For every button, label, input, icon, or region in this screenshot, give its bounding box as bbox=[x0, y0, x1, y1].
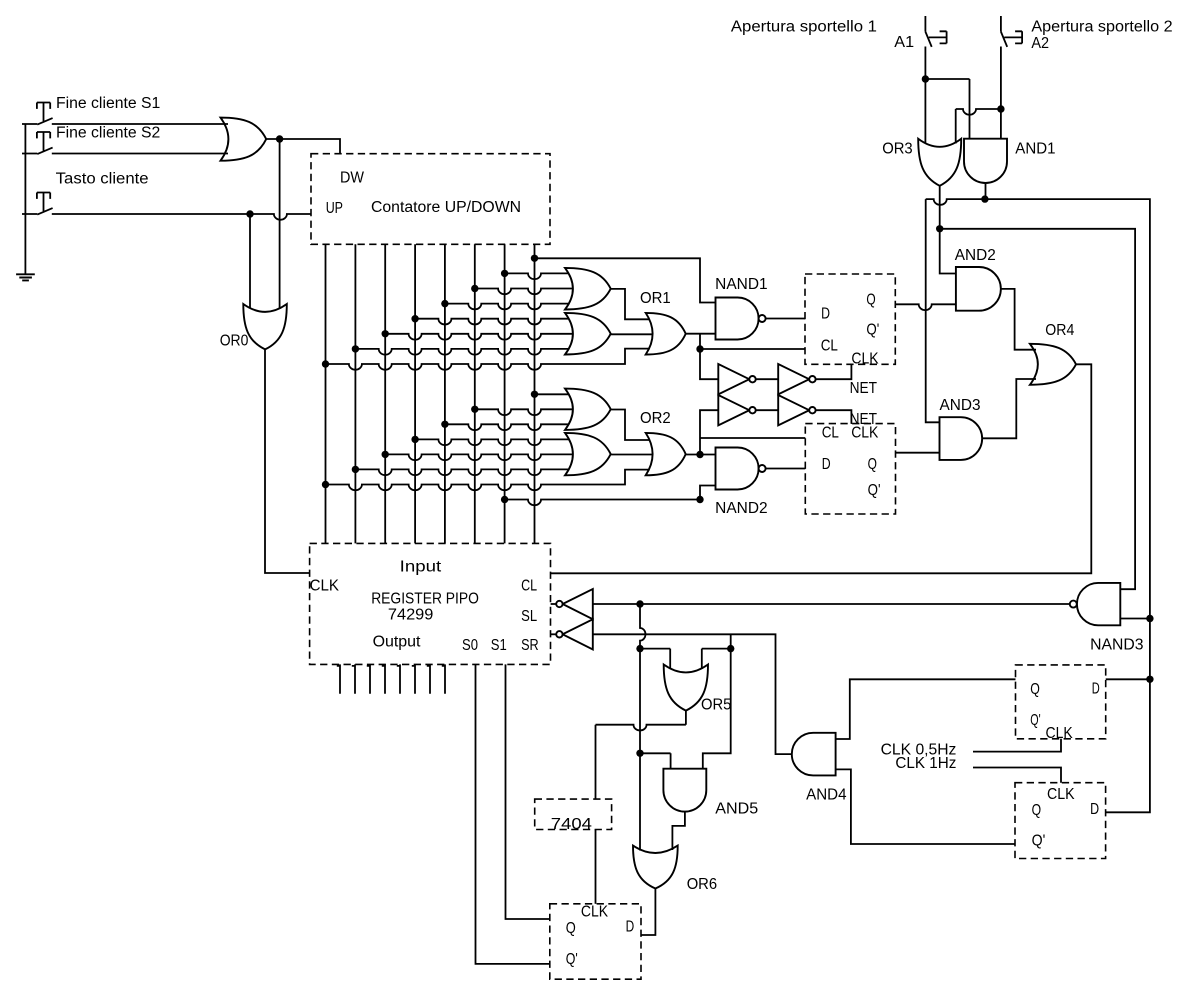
junction bus row 2 (upper group) bbox=[471, 285, 478, 292]
svg-text:UP: UP bbox=[326, 200, 343, 217]
junction bus row 4 (upper group) bbox=[411, 315, 418, 322]
stub SL bubble to register bbox=[551, 603, 557, 605]
svg-text:74299: 74299 bbox=[388, 606, 434, 623]
svg-text:S0: S0 bbox=[462, 637, 478, 654]
svg-text:AND1: AND1 bbox=[1015, 141, 1055, 158]
wire NET to DFF2 CLK bbox=[816, 410, 852, 423]
wire DFF1 Q to AND2 (hops over AND3 feed) bbox=[895, 304, 956, 310]
svg-text:REGISTER PIPO: REGISTER PIPO bbox=[371, 590, 479, 607]
inverter U1b (NET chain bottom, first) bbox=[718, 395, 749, 425]
svg-text:AND3: AND3 bbox=[940, 397, 981, 414]
svg-text:Output: Output bbox=[373, 634, 422, 651]
junction bus row (lower group) at x=474.8 bbox=[471, 406, 478, 413]
wire CLK 1Hz to DFF4 CLK bbox=[973, 768, 1061, 783]
inverter U2a (NET chain top, second) bbox=[778, 364, 809, 394]
svg-text:CLK: CLK bbox=[851, 425, 879, 442]
wire between NET inverters (top) bbox=[756, 378, 779, 380]
svg-text:S1: S1 bbox=[491, 637, 507, 654]
wire counter bit7 to OR2a bbox=[535, 393, 569, 395]
wire A1 branch to AND1 left input bbox=[925, 79, 969, 139]
svg-text:D: D bbox=[626, 918, 635, 935]
junction bus row 3 (upper group) bbox=[441, 300, 448, 307]
svg-text:D: D bbox=[821, 306, 830, 323]
wire counter bit0 to OR1 low input bbox=[326, 349, 650, 370]
wire junction to OR0 left input bbox=[249, 214, 251, 309]
junction bus row 5 (upper group) bbox=[382, 330, 389, 337]
wire OR3 tap to NAND3 top input bbox=[940, 229, 1135, 589]
or-gate OR2b bbox=[565, 433, 611, 475]
wire OR2a output to OR2 bbox=[611, 410, 650, 441]
and-gate AND3 bbox=[940, 417, 983, 460]
d-flip-flop DFF1 box bbox=[805, 274, 895, 364]
svg-text:OR1: OR1 bbox=[640, 290, 671, 307]
wire NET to DFF1 CLK bbox=[816, 364, 852, 379]
svg-text:CLK: CLK bbox=[851, 351, 879, 368]
wire AND3 output to OR4 bbox=[982, 379, 1036, 438]
and-gate AND2 bbox=[956, 267, 1001, 311]
svg-text:CLK: CLK bbox=[581, 903, 609, 920]
svg-text:OR3: OR3 bbox=[882, 141, 913, 158]
or-gate OR2 bbox=[646, 433, 686, 475]
wire OR2b output to OR2 bbox=[611, 454, 653, 456]
wire counter bit5 to OR2a (center) bbox=[475, 409, 573, 415]
wire counter bit4 to OR2a bbox=[445, 424, 569, 430]
wire NAND2 output to DFF2 D bbox=[766, 468, 806, 470]
svg-text:Q: Q bbox=[1030, 681, 1040, 698]
junction OR5 left feed bbox=[636, 645, 643, 652]
or-gate OR(S1,S2) bbox=[221, 118, 267, 161]
counter box (Contatore UP/DOWN) bbox=[311, 154, 550, 245]
wire OR3 output down to AND2 top input (hops rail) bbox=[940, 186, 956, 274]
svg-text:Q': Q' bbox=[1030, 712, 1040, 729]
junction Tasto/OR0 bbox=[246, 210, 253, 217]
svg-text:Q': Q' bbox=[868, 482, 881, 499]
wire register S0 to DFF5 Q' row bbox=[476, 664, 550, 964]
svg-text:OR6: OR6 bbox=[687, 876, 717, 893]
svg-text:Q: Q bbox=[868, 456, 877, 473]
wire counter bit4 to OR1a bbox=[445, 304, 569, 310]
counter output bus wires (8 verticals to register) bbox=[326, 244, 535, 543]
wire Tasto cliente to counter UP input bbox=[52, 214, 311, 220]
or-gate OR3 bbox=[918, 139, 961, 186]
svg-text:Fine cliente S1: Fine cliente S1 bbox=[56, 95, 160, 112]
svg-text:OR5: OR5 bbox=[701, 697, 731, 714]
junction rail to NAND3 low input bbox=[1146, 615, 1153, 622]
inverter box 7404 bbox=[535, 799, 612, 829]
d-flip-flop DFF2 box bbox=[805, 424, 895, 514]
or-gate OR1b bbox=[565, 313, 611, 355]
svg-text:Q: Q bbox=[566, 920, 576, 937]
junction DFF1 CL tap bbox=[696, 345, 703, 352]
wire NAND3 output to SL inverter (SL line) bbox=[593, 603, 1070, 605]
junction NAND2 low input corner bbox=[696, 496, 703, 503]
or-gate OR5 bbox=[664, 665, 708, 711]
or-gate OR0 bbox=[243, 304, 286, 349]
svg-text:CL: CL bbox=[821, 338, 839, 355]
wire counter bit6 to OR1a bbox=[505, 273, 569, 279]
wire tap vertical x=640 (hops SR line) down to OR6 bbox=[640, 604, 646, 851]
or-gate OR2a bbox=[565, 389, 611, 430]
junction bus row 6 (upper group) bbox=[352, 345, 359, 352]
junction bus row (lower group) at x=504.6 bbox=[501, 496, 508, 503]
junction A1 branch bbox=[922, 75, 929, 82]
svg-text:CLK: CLK bbox=[1047, 786, 1075, 803]
wire OR(S1,S2) output to counter top / OR0 right input bbox=[266, 139, 340, 309]
and-gate AND5 bbox=[663, 769, 706, 812]
junction OR5 right feed bbox=[727, 645, 734, 652]
svg-text:CL: CL bbox=[822, 425, 840, 442]
wire OR5 output to 7404 (hops x640 wire) bbox=[596, 711, 686, 800]
stub SR bubble to register bbox=[551, 633, 557, 635]
nand-gate NAND3 (points left) bbox=[1077, 583, 1120, 625]
wire OR1a output to OR1 bbox=[611, 289, 650, 319]
wire to OR5 left input bbox=[640, 649, 670, 669]
svg-text:SR: SR bbox=[521, 637, 539, 654]
pushbutton switch S1 (Fine cliente S1) bbox=[37, 103, 53, 125]
svg-text:A1: A1 bbox=[894, 34, 914, 51]
junction bus row 7 (upper group) bbox=[322, 360, 329, 367]
wire S2 to OR gate bbox=[52, 153, 228, 155]
and-gate AND1 bbox=[964, 139, 1007, 183]
svg-text:NAND1: NAND1 bbox=[715, 276, 767, 293]
svg-text:Tasto cliente: Tasto cliente bbox=[56, 170, 149, 187]
junction OR3 line to NAND3 feed bbox=[936, 225, 943, 232]
wire register S1 to DFF5 Q row bbox=[506, 664, 550, 919]
svg-text:CL: CL bbox=[521, 578, 537, 595]
wire S1 to OR gate bbox=[52, 123, 228, 125]
nand-gate NAND1 bbox=[716, 298, 759, 340]
svg-text:Apertura sportello 1: Apertura sportello 1 bbox=[731, 19, 877, 36]
wire counter bit0 to OR2 low input bbox=[326, 470, 650, 491]
wire counter bit2 to OR1b bbox=[385, 334, 573, 340]
wire counter bit1 to OR2b bbox=[355, 469, 568, 475]
svg-text:Q: Q bbox=[1032, 802, 1042, 819]
svg-text:D: D bbox=[822, 456, 831, 473]
wire A1 to OR3 left input bbox=[924, 47, 926, 144]
or-gate OR1a bbox=[565, 268, 611, 310]
wire AND2 output to OR4 bbox=[1001, 289, 1036, 350]
wire counter bit6 to NAND2 low input bbox=[505, 486, 716, 506]
wire counter bit1 to OR1b bbox=[355, 349, 568, 355]
wire top rail (A1+A2 net) to AND3 and right column to DFF4 D bbox=[926, 199, 1150, 812]
inverter U2b (NET chain bottom, second) bbox=[778, 395, 809, 425]
svg-text:AND2: AND2 bbox=[955, 247, 996, 264]
wire NAND1 output to DFF1 D bbox=[766, 318, 805, 320]
svg-text:OR0: OR0 bbox=[220, 333, 249, 350]
wire A2 branch to OR3 right input (hops over A1 branch) bbox=[956, 109, 1001, 144]
wire SR line from inverter to AND4 output bbox=[593, 634, 792, 754]
svg-text:D: D bbox=[1092, 680, 1100, 697]
svg-text:CLK 1Hz: CLK 1Hz bbox=[895, 755, 956, 772]
svg-text:D: D bbox=[1090, 801, 1099, 818]
svg-text:NAND2: NAND2 bbox=[715, 500, 767, 517]
wire OR0 output to register CLK bbox=[265, 349, 310, 573]
wire OR6 output to DFF5 D bbox=[641, 889, 655, 936]
wire AND4 top input to DFF3 Q bbox=[836, 679, 1016, 739]
wire counter bit3 to OR1b bbox=[415, 319, 568, 325]
wire switch common rail to ground bbox=[22, 124, 37, 274]
pushbutton switch A1 bbox=[925, 16, 946, 47]
wire OR1 output to NAND1 / tap to NET inverter and DFF1 CL bbox=[686, 334, 805, 380]
junction rail to DFF3 D bbox=[1146, 676, 1153, 683]
svg-text:Apertura sportello 2: Apertura sportello 2 bbox=[1031, 19, 1172, 36]
wire AND4 low input to DFF4 Q' bbox=[836, 769, 1015, 844]
wire CLK 0,5Hz to DFF3 CLK bbox=[973, 739, 1061, 752]
wire OR4 output to register CL bbox=[551, 364, 1092, 573]
wire AND5 output to OR6 right input bbox=[672, 812, 685, 850]
wire 7404 output to DFF5 CLK bbox=[595, 830, 597, 904]
pushbutton switch A2 bbox=[1001, 16, 1022, 47]
junction bus row (lower group) at x=385.2 bbox=[382, 451, 389, 458]
svg-text:NET: NET bbox=[850, 380, 878, 397]
junction OR(S1,S2) output bbox=[276, 135, 283, 142]
wire OR2 output to NAND2 / tap to NET inverter and DFF2 CL bbox=[686, 410, 806, 454]
svg-text:CLK: CLK bbox=[310, 578, 340, 595]
inverter on register SR input bbox=[563, 619, 593, 649]
wire DFF2 Q to AND3 bbox=[896, 452, 940, 454]
d-flip-flop DFF5 box bbox=[550, 904, 641, 979]
svg-text:AND4: AND4 bbox=[806, 787, 847, 804]
inverter on register SL input bbox=[563, 589, 593, 619]
pushbutton switch S2 (Fine cliente S2) bbox=[37, 132, 53, 154]
junction bus row (lower group) at x=444.9 bbox=[441, 421, 448, 428]
wire counter bit7 to NAND1 top input bbox=[535, 258, 716, 302]
svg-text:Input: Input bbox=[400, 559, 442, 576]
svg-text:SL: SL bbox=[521, 608, 537, 625]
junction bus row (lower group) at x=325.5 bbox=[322, 481, 329, 488]
wire A2 to AND1 right input bbox=[1000, 47, 1002, 139]
wire to AND5 left input bbox=[640, 753, 671, 768]
junction OR2 output bbox=[696, 451, 703, 458]
or-gate OR6 bbox=[633, 846, 678, 889]
wire counter bit3 to OR2b bbox=[415, 439, 568, 445]
svg-text:CLK: CLK bbox=[1046, 725, 1074, 742]
pushbutton switch S3 (Tasto cliente) bbox=[37, 193, 53, 215]
junction bus row (lower group) at x=415.1 bbox=[411, 436, 418, 443]
svg-text:AND5: AND5 bbox=[715, 800, 758, 817]
svg-text:DW: DW bbox=[340, 170, 364, 187]
junction SL line tap bbox=[636, 600, 643, 607]
wire counter bit5 to OR1a bbox=[475, 289, 573, 295]
svg-text:Q: Q bbox=[866, 291, 875, 308]
wire counter bit2 to OR2b (center) bbox=[385, 454, 573, 460]
junction AND5 left feed bbox=[636, 750, 643, 757]
register 74299 box (REGISTER PIPO) bbox=[310, 543, 551, 664]
svg-text:NAND3: NAND3 bbox=[1090, 636, 1143, 653]
or-gate OR4 bbox=[1030, 344, 1076, 385]
wire OR1b output to OR1 bbox=[611, 333, 653, 335]
svg-text:Fine cliente S2: Fine cliente S2 bbox=[56, 124, 160, 141]
svg-text:7404: 7404 bbox=[551, 816, 593, 833]
junction A2 branch bbox=[997, 105, 1004, 112]
d-flip-flop DFF3 box bbox=[1016, 665, 1106, 739]
junction bus row (lower group) at x=355.4 bbox=[352, 466, 359, 473]
wire between NET inverters (bottom) bbox=[756, 409, 779, 411]
junction bus row 1 (upper group) bbox=[501, 270, 508, 277]
register output pin stubs bbox=[337, 664, 445, 693]
wire DFF3 D to rail bbox=[1106, 678, 1150, 680]
wire NAND3 low input to rail bbox=[1120, 618, 1150, 620]
wire AND1 output to rail bbox=[985, 183, 987, 199]
ground bbox=[16, 274, 35, 280]
junction bus row 0 (upper group) bbox=[531, 255, 538, 262]
svg-text:OR4: OR4 bbox=[1045, 322, 1074, 339]
nand-gate NAND2 bbox=[716, 448, 759, 490]
svg-text:Q': Q' bbox=[566, 951, 578, 968]
junction AND1 output on rail bbox=[981, 195, 988, 202]
wire SR-line tap down to OR5 right and AND5 right inputs bbox=[702, 634, 731, 768]
svg-text:Contatore UP/DOWN: Contatore UP/DOWN bbox=[371, 199, 521, 216]
svg-text:Q': Q' bbox=[1032, 833, 1046, 850]
or-gate OR1 bbox=[646, 313, 686, 355]
and-gate AND4 (points left) bbox=[792, 733, 836, 776]
d-flip-flop DFF4 box bbox=[1015, 783, 1106, 859]
inverter U1a (NET chain top, first) bbox=[718, 364, 749, 394]
junction bus row (lower group) at x=534.5 bbox=[531, 391, 538, 398]
svg-text:OR2: OR2 bbox=[640, 410, 671, 427]
svg-text:Q': Q' bbox=[866, 321, 879, 338]
svg-text:A2: A2 bbox=[1031, 35, 1049, 52]
